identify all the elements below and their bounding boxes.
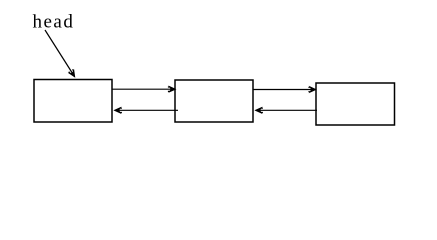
svg-text:head: head [33, 12, 75, 33]
node 2 box [175, 80, 253, 122]
next pointer arrow node1 to node2 [112, 88, 175, 90]
arrow from head to node 1 [45, 30, 75, 77]
prev pointer arrow node2 to node1 [115, 109, 178, 111]
node 1 box [34, 80, 112, 123]
node 3 box [316, 83, 395, 125]
prev pointer arrow node3 to node2 [256, 109, 317, 111]
next pointer arrow node2 to node3 [253, 89, 316, 91]
